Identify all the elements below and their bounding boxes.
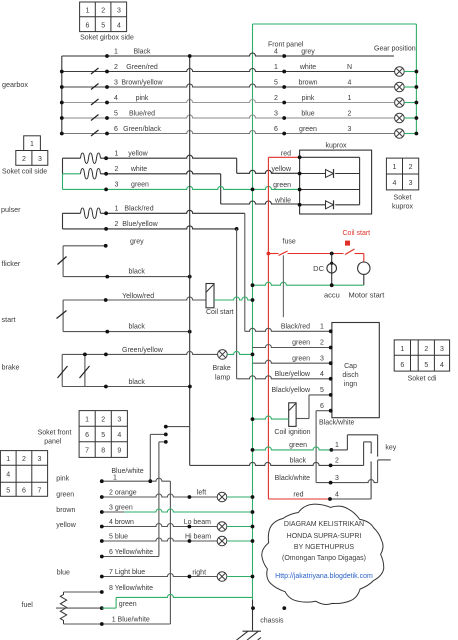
svg-text:5: 5 (6, 487, 10, 494)
svg-text:2: 2 (115, 166, 119, 173)
svg-text:Black/white: Black/white (275, 475, 311, 482)
svg-text:Green/red: Green/red (126, 64, 158, 71)
svg-text:black: black (129, 324, 146, 331)
svg-text:white: white (130, 166, 147, 173)
svg-text:yellow: yellow (128, 151, 148, 158)
svg-text:Cap: Cap (344, 363, 357, 370)
svg-text:brake: brake (2, 363, 20, 372)
svg-text:Coil ignition: Coil ignition (274, 429, 310, 436)
svg-text:2: 2 (115, 221, 119, 228)
svg-text:Black/red: Black/red (124, 206, 153, 213)
svg-text:4: 4 (117, 432, 121, 439)
svg-text:brown: brown (298, 80, 317, 87)
svg-text:1: 1 (30, 141, 34, 148)
svg-text:3: 3 (409, 180, 413, 187)
svg-text:Blue/yellow: Blue/yellow (275, 371, 311, 378)
svg-text:1: 1 (348, 95, 352, 102)
svg-text:4: 4 (6, 472, 10, 479)
svg-text:DIAGRAM KELISTRIKAN: DIAGRAM KELISTRIKAN (284, 521, 364, 528)
svg-text:black: black (129, 269, 146, 276)
svg-text:1: 1 (114, 49, 118, 56)
svg-text:fuel: fuel (22, 602, 34, 609)
svg-text:Blue/yellow: Blue/yellow (122, 221, 158, 228)
svg-text:6: 6 (274, 126, 278, 133)
svg-text:panel: panel (44, 439, 62, 446)
svg-text:1: 1 (115, 206, 119, 213)
svg-text:7 Light blue: 7 Light blue (109, 569, 145, 576)
svg-text:9: 9 (117, 448, 121, 455)
svg-text:2: 2 (424, 346, 428, 353)
svg-text:4: 4 (117, 23, 121, 30)
svg-text:Brake: Brake (213, 365, 231, 372)
svg-text:5: 5 (101, 23, 105, 30)
svg-text:Green/yellow: Green/yellow (122, 347, 164, 354)
svg-text:2: 2 (274, 95, 278, 102)
svg-text:4: 4 (335, 491, 339, 498)
svg-text:Coil start: Coil start (206, 309, 234, 316)
svg-text:3: 3 (274, 111, 278, 118)
svg-text:2: 2 (101, 417, 105, 424)
svg-text:1: 1 (320, 324, 324, 331)
svg-text:2: 2 (101, 8, 105, 15)
svg-text:red: red (293, 491, 303, 498)
svg-text:Front panel: Front panel (268, 42, 304, 49)
svg-text:2: 2 (22, 156, 26, 163)
svg-text:3: 3 (335, 475, 339, 482)
svg-text:(Omongan Tanpo Digagas): (Omongan Tanpo Digagas) (282, 555, 366, 562)
svg-text:1: 1 (400, 346, 404, 353)
svg-text:1: 1 (335, 442, 339, 449)
svg-text:3 green: 3 green (109, 505, 133, 512)
svg-text:while: while (274, 198, 291, 205)
svg-text:ingn: ingn (344, 381, 357, 388)
svg-text:fuse: fuse (283, 239, 296, 246)
svg-text:5: 5 (274, 80, 278, 87)
svg-text:HONDA SUPRA-SUPRI: HONDA SUPRA-SUPRI (287, 533, 362, 540)
svg-text:grey: grey (130, 239, 144, 246)
svg-text:pink: pink (136, 95, 149, 102)
svg-text:3: 3 (440, 346, 444, 353)
svg-text:3: 3 (114, 80, 118, 87)
svg-text:5: 5 (114, 111, 118, 118)
svg-text:6: 6 (320, 403, 324, 410)
svg-text:Black/yellow: Black/yellow (271, 387, 310, 394)
svg-text:black: black (290, 458, 307, 465)
svg-text:disch: disch (342, 372, 358, 379)
svg-text:yellow: yellow (272, 166, 292, 173)
svg-text:5: 5 (424, 362, 428, 369)
svg-text:2 orange: 2 orange (109, 490, 137, 497)
svg-text:kuprox: kuprox (325, 143, 347, 150)
svg-text:1: 1 (393, 164, 397, 171)
svg-text:4: 4 (274, 49, 278, 56)
svg-text:6: 6 (22, 487, 26, 494)
svg-text:Soket cdi: Soket cdi (408, 376, 437, 383)
svg-text:BY NGETHUPRUS: BY NGETHUPRUS (294, 544, 354, 551)
svg-text:green: green (273, 182, 291, 189)
svg-text:3: 3 (115, 182, 119, 189)
svg-text:8: 8 (101, 448, 105, 455)
svg-text:green: green (289, 442, 307, 449)
svg-text:2: 2 (348, 111, 352, 118)
svg-text:start: start (2, 315, 16, 324)
svg-text:black: black (129, 379, 146, 386)
svg-text:Black: Black (133, 49, 151, 56)
svg-text:Hi beam: Hi beam (185, 533, 211, 540)
svg-text:4 brown: 4 brown (109, 519, 134, 526)
svg-text:blue: blue (57, 570, 70, 577)
svg-text:7: 7 (38, 487, 42, 494)
svg-text:green: green (119, 601, 137, 608)
svg-text:green: green (299, 126, 317, 133)
svg-text:green: green (131, 182, 149, 189)
svg-text:2: 2 (409, 164, 413, 171)
svg-text:pulser: pulser (1, 205, 21, 214)
svg-text:1 Blue/white: 1 Blue/white (112, 617, 150, 624)
svg-text:Gear position: Gear position (374, 46, 416, 53)
svg-text:grey: grey (301, 49, 315, 56)
svg-text:5 blue: 5 blue (109, 534, 128, 541)
svg-text:Http://jakatriyana.blogdetik.c: Http://jakatriyana.blogdetik.com (275, 573, 373, 580)
svg-text:flicker: flicker (2, 259, 21, 268)
svg-text:gearbox: gearbox (2, 80, 28, 89)
svg-text:1: 1 (85, 417, 89, 424)
svg-text:blue: blue (301, 111, 314, 118)
svg-text:Green/black: Green/black (123, 126, 161, 133)
svg-text:1: 1 (115, 151, 119, 158)
svg-text:2: 2 (114, 64, 118, 71)
svg-text:pink: pink (56, 475, 69, 482)
svg-text:3: 3 (320, 355, 324, 362)
svg-text:brown: brown (56, 507, 75, 514)
svg-text:DC: DC (313, 264, 324, 273)
svg-text:yellow: yellow (56, 522, 76, 529)
svg-text:1: 1 (113, 474, 117, 481)
svg-text:Black/red: Black/red (281, 324, 310, 331)
svg-text:Motor start: Motor start (349, 291, 386, 300)
svg-text:4: 4 (440, 362, 444, 369)
svg-text:Soket girbox side: Soket girbox side (80, 35, 134, 42)
svg-text:6 Yellow/white: 6 Yellow/white (109, 549, 153, 556)
svg-text:Black/white: Black/white (319, 420, 355, 427)
svg-text:Soket: Soket (394, 195, 412, 202)
svg-text:2: 2 (22, 456, 26, 463)
svg-text:Soket front: Soket front (38, 430, 72, 437)
svg-text:4: 4 (114, 95, 118, 102)
svg-text:Soket coil side: Soket coil side (2, 169, 47, 176)
svg-text:1: 1 (6, 456, 10, 463)
svg-text:N: N (347, 64, 352, 71)
svg-text:Yellow/red: Yellow/red (122, 293, 154, 300)
svg-text:right: right (192, 569, 206, 576)
svg-text:1: 1 (274, 64, 278, 71)
svg-text:3: 3 (348, 126, 352, 133)
svg-text:3: 3 (117, 8, 121, 15)
svg-text:2: 2 (335, 458, 339, 465)
svg-text:3: 3 (117, 417, 121, 424)
svg-text:3: 3 (38, 456, 42, 463)
svg-text:6: 6 (400, 362, 404, 369)
svg-text:accu: accu (324, 291, 340, 300)
svg-text:pink: pink (302, 95, 315, 102)
svg-text:4: 4 (320, 371, 324, 378)
svg-text:Coil start: Coil start (343, 230, 371, 237)
svg-text:chassis: chassis (260, 618, 284, 625)
svg-text:lamp: lamp (215, 375, 230, 382)
svg-text:4: 4 (393, 180, 397, 187)
svg-text:5: 5 (101, 432, 105, 439)
svg-text:2: 2 (320, 340, 324, 347)
svg-text:7: 7 (85, 448, 89, 455)
svg-text:4: 4 (348, 80, 352, 87)
svg-text:Brown/yellow: Brown/yellow (121, 80, 163, 87)
svg-text:green: green (292, 340, 310, 347)
svg-text:green: green (292, 355, 310, 362)
svg-text:Lo beam: Lo beam (184, 519, 211, 526)
svg-text:green: green (56, 492, 74, 499)
svg-text:6: 6 (85, 432, 89, 439)
svg-text:1: 1 (86, 8, 90, 15)
svg-text:key: key (385, 445, 396, 452)
svg-text:Blue/red: Blue/red (129, 111, 155, 118)
svg-text:left: left (197, 489, 206, 496)
svg-text:6: 6 (86, 23, 90, 30)
svg-text:red: red (281, 151, 291, 158)
svg-text:6: 6 (114, 126, 118, 133)
svg-text:5: 5 (320, 387, 324, 394)
svg-text:white: white (299, 64, 316, 71)
svg-text:3: 3 (38, 156, 42, 163)
svg-text:kuprox: kuprox (392, 204, 414, 211)
svg-text:8 Yellow/white: 8 Yellow/white (109, 585, 153, 592)
